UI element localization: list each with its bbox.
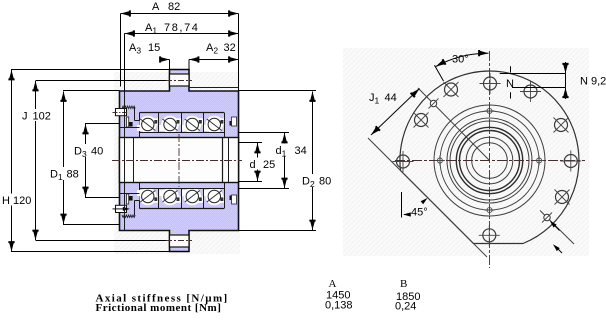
svg-text:A: A [329, 278, 337, 290]
svg-text:N 9,2: N 9,2 [580, 76, 606, 88]
svg-text:25: 25 [263, 159, 275, 171]
svg-text:80: 80 [319, 176, 331, 188]
svg-text:32: 32 [224, 42, 236, 54]
svg-text:88: 88 [67, 169, 79, 181]
svg-text:44: 44 [385, 92, 397, 104]
svg-text:34: 34 [295, 145, 307, 157]
svg-text:0,138: 0,138 [325, 300, 353, 312]
svg-text:102: 102 [33, 111, 51, 123]
svg-text:78,74: 78,74 [164, 22, 200, 34]
svg-text:d: d [250, 159, 256, 171]
svg-text:H: H [2, 195, 10, 207]
svg-text:A: A [152, 1, 160, 13]
svg-text:82: 82 [168, 1, 180, 13]
svg-text:30°: 30° [452, 54, 469, 66]
svg-text:0,24: 0,24 [395, 301, 416, 313]
svg-text:45°: 45° [411, 207, 428, 219]
svg-text:N: N [506, 78, 514, 90]
svg-text:Frictional moment [Nm]: Frictional moment [Nm] [96, 302, 222, 314]
svg-text:B: B [400, 278, 407, 290]
svg-text:40: 40 [91, 146, 103, 158]
svg-text:120: 120 [13, 195, 31, 207]
svg-text:15: 15 [148, 42, 160, 54]
svg-text:J: J [22, 111, 28, 123]
